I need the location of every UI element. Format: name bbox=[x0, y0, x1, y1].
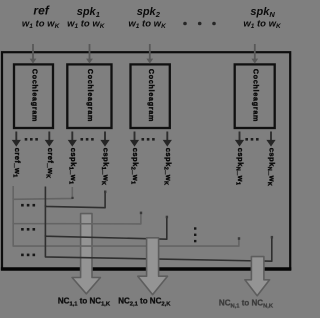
svg-text:cspk1_w1: cspk1_w1 bbox=[67, 148, 78, 185]
svg-text:Cochleagram: Cochleagram bbox=[252, 69, 260, 122]
svg-text:Cochleagram: Cochleagram bbox=[86, 69, 94, 122]
svg-text:ref: ref bbox=[33, 4, 49, 18]
svg-text:cref_w1: cref_w1 bbox=[11, 148, 22, 178]
svg-text:Cochleagram: Cochleagram bbox=[147, 69, 155, 122]
svg-text:Cochleagram: Cochleagram bbox=[30, 69, 38, 122]
svg-text:cref_wK: cref_wK bbox=[44, 148, 55, 179]
svg-text:cspk2_w1: cspk2_w1 bbox=[130, 148, 141, 185]
svg-text:cspk1_wK: cspk1_wK bbox=[100, 148, 111, 186]
svg-text:cspkN_w1: cspkN_w1 bbox=[235, 148, 246, 186]
svg-text:cspk2_wK: cspk2_wK bbox=[162, 148, 173, 186]
